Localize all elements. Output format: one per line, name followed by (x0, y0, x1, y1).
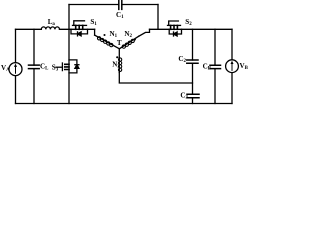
svg-text:T: T (117, 39, 122, 47)
svg-text:VA: VA (1, 64, 10, 73)
winding N2 coil loops (122, 39, 134, 48)
polarity dot N1 (103, 34, 105, 36)
transistor S1 body diode loop (71, 29, 88, 34)
svg-text:CB: CB (203, 62, 212, 71)
winding N3 (vertical line) (118, 58, 120, 73)
svg-text:C1: C1 (116, 11, 124, 20)
inductor La (41, 27, 59, 29)
source VB arrow (231, 63, 233, 70)
capacitor C3 plates (187, 94, 199, 98)
transistor S2 body diode symbol (174, 32, 178, 36)
wire mid rail right section (150, 28, 233, 30)
source VA circle (9, 63, 22, 76)
capacitor CB plates (210, 65, 221, 68)
transistor S2 body diode loop (169, 29, 181, 34)
source VB circle (226, 60, 239, 73)
svg-text:N1: N1 (110, 30, 118, 39)
capacitor CL plates (29, 65, 40, 69)
wire N3 down and right to C2/C3 junction (119, 73, 192, 84)
wire C3 to bottom rail (192, 98, 194, 104)
winding N1 (diagonal line) (95, 35, 120, 49)
svg-text:S3: S3 (52, 64, 59, 73)
wire bottom rail (16, 103, 233, 105)
wire mid rail left section (16, 28, 42, 30)
wire C2 to junction to C3 (192, 63, 194, 94)
wire mid rail from inductor through S1 to corner (60, 28, 95, 30)
transistor S1 body diode symbol (78, 32, 82, 36)
transistor S1 channel ticks (76, 25, 83, 29)
source VA arrow (15, 66, 17, 73)
svg-text:VB: VB (240, 62, 249, 71)
svg-text:S1: S1 (90, 18, 97, 27)
source VA column wires (15, 29, 17, 103)
svg-text:La: La (48, 18, 56, 27)
transistor S2 gate lead (169, 21, 179, 25)
polarity dot N2 (134, 38, 136, 40)
transistor S2 gate bar (168, 24, 181, 26)
wire left vertical x=69 (top rail to S3) (68, 5, 70, 104)
winding N3 coil loops (118, 58, 121, 72)
transistor S3 body diode symbol (75, 65, 79, 69)
transistor S1 gate lead (74, 21, 85, 26)
capacitor C2 column wire (192, 29, 194, 60)
wire center tap down (118, 49, 120, 58)
transistor S2 channel ticks (171, 25, 178, 29)
wire from N2 up to mid rail right (139, 29, 150, 36)
wire right vertical x=158 (top rail down to mid rail) (157, 5, 159, 30)
wire corner from S1 down to winding N1 (94, 29, 96, 35)
svg-text:S2: S2 (185, 18, 192, 27)
capacitor CB column wire (214, 29, 216, 103)
svg-text:C3: C3 (180, 91, 188, 100)
capacitor C2 plates (187, 60, 198, 63)
wire top rail left of C1 (69, 4, 119, 6)
polarity dot N3 (116, 56, 118, 58)
capacitor C1 (119, 1, 122, 10)
transistor S3 channel ticks (65, 64, 69, 69)
source VB column wires (231, 29, 233, 103)
transistor S3 gate bar (61, 63, 63, 71)
transistor S3 gate lead (56, 66, 62, 68)
winding N1 coil loops (97, 37, 113, 47)
winding N2 (diagonal line) (119, 36, 139, 49)
transistor S1 gate bar (73, 24, 87, 26)
wire top rail right of C1 (122, 4, 158, 6)
capacitor CL column wires (33, 29, 35, 103)
transistor S3 body diode loop (69, 60, 77, 73)
svg-text:CL: CL (40, 63, 49, 72)
svg-text:C2: C2 (178, 55, 186, 64)
svg-text:N2: N2 (124, 30, 132, 39)
